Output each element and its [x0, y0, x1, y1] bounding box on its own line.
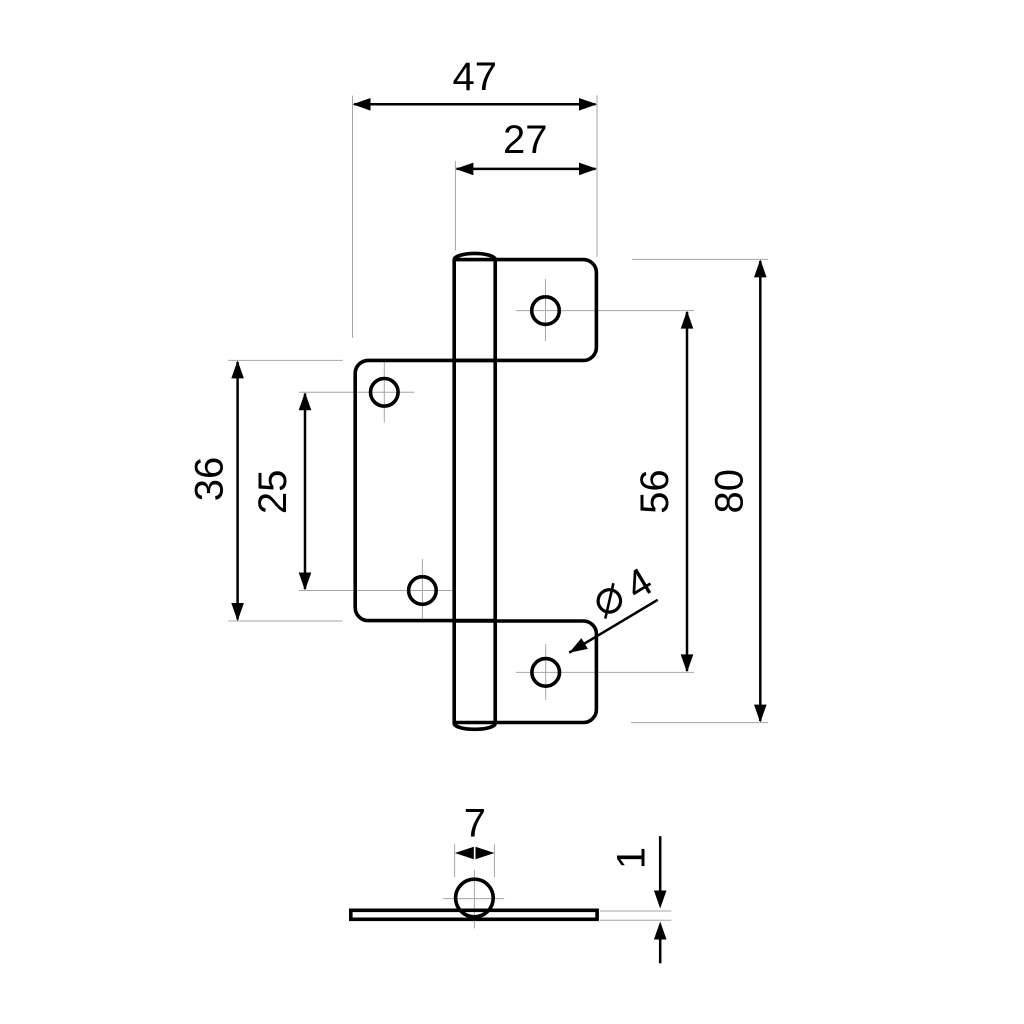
dim25 dimension line	[304, 394, 307, 590]
dim80 bottom arrowhead	[754, 705, 767, 723]
centerline H3 vertical	[545, 279, 547, 341]
dim7 left arrowhead	[455, 847, 474, 860]
dim47 dim27 shared right extension line	[596, 95, 598, 257]
dim80 bottom extension line	[631, 722, 768, 724]
dim25 top arrowhead	[299, 392, 312, 410]
centerline H1 horizontal merged with dim25 top extension	[299, 391, 414, 393]
barrel bottom cap arc	[454, 724, 495, 730]
hinge barrel left line	[452, 260, 456, 724]
dim80 dimension line	[759, 261, 762, 721]
diameter leader line	[569, 600, 658, 653]
diameter symbol circle	[594, 586, 625, 617]
dim47 left extension line	[352, 96, 354, 338]
dim1 lower dimension line	[659, 937, 662, 963]
dim56 dimension line	[686, 312, 689, 671]
svg-text:56: 56	[633, 469, 677, 513]
dim27 right arrowhead	[579, 163, 597, 176]
dim1 upper dimension line	[659, 836, 662, 893]
barrel top cap arc	[454, 253, 495, 259]
centerline H4 horizontal merged with dim56 bottom extension	[516, 671, 694, 673]
bottom-right flap outline	[454, 621, 596, 723]
hole H1 top-left	[371, 379, 399, 407]
dim7 right arrowhead	[476, 847, 495, 860]
dim1 upper arrowhead pointing down	[654, 891, 667, 909]
dim36 top arrowhead	[231, 360, 244, 378]
svg-text:36: 36	[187, 457, 231, 502]
dim36 dimension line	[236, 362, 239, 620]
left flap outline	[355, 360, 495, 620]
dim27 dimension line	[457, 168, 596, 171]
dim80 top extension line	[632, 258, 768, 260]
dim27 left arrowhead	[455, 163, 473, 176]
dim47 dimension line	[354, 103, 596, 106]
svg-text:7: 7	[464, 802, 486, 846]
centerline H2 horizontal merged with dim25 bottom extension	[299, 590, 452, 592]
centerline H3 horizontal merged with dim56 top extension	[516, 310, 694, 312]
centerline H4 vertical	[545, 644, 547, 700]
hole H3 top-right	[532, 297, 560, 325]
dim36 bottom extension line	[228, 620, 342, 622]
svg-text:47: 47	[453, 55, 498, 99]
diameter symbol and label group	[588, 560, 660, 628]
dim7 left extension line	[454, 844, 456, 877]
bottom view plate	[351, 910, 597, 919]
bottom view barrel circle	[456, 879, 494, 917]
svg-text:1: 1	[610, 847, 654, 869]
bottom view circle vertical centerline	[473, 870, 475, 929]
dim47 left arrowhead	[353, 98, 371, 111]
dim56 top arrowhead	[681, 311, 694, 329]
dim1 bottom extension line	[600, 919, 671, 921]
diameter leader arrowhead	[569, 638, 588, 653]
centerline H2 vertical	[421, 559, 423, 623]
dim7 right extension line	[493, 844, 495, 877]
dim80 top arrowhead	[754, 259, 767, 277]
dim25 bottom arrowhead	[299, 573, 312, 591]
dim36 bottom arrowhead	[231, 603, 244, 621]
hole H4 bottom-right	[532, 659, 560, 687]
top-right flap outline	[454, 260, 596, 361]
centerline H1 vertical	[383, 360, 385, 423]
dim36 top extension line	[228, 359, 342, 361]
dim47 right arrowhead	[579, 98, 597, 111]
dim1 top extension line	[600, 910, 671, 912]
dim27 left extension line	[454, 161, 456, 250]
bottom view circle horizontal centerline	[443, 898, 505, 900]
dim1 lower arrowhead pointing up	[654, 922, 667, 940]
svg-text:27: 27	[503, 118, 548, 162]
svg-text:25: 25	[251, 470, 295, 515]
hinge barrel right line	[493, 260, 497, 724]
dim56 bottom arrowhead	[681, 654, 694, 672]
diameter symbol slash	[592, 583, 627, 618]
hole H2 bottom-left	[409, 577, 437, 605]
svg-text:80: 80	[708, 469, 752, 514]
